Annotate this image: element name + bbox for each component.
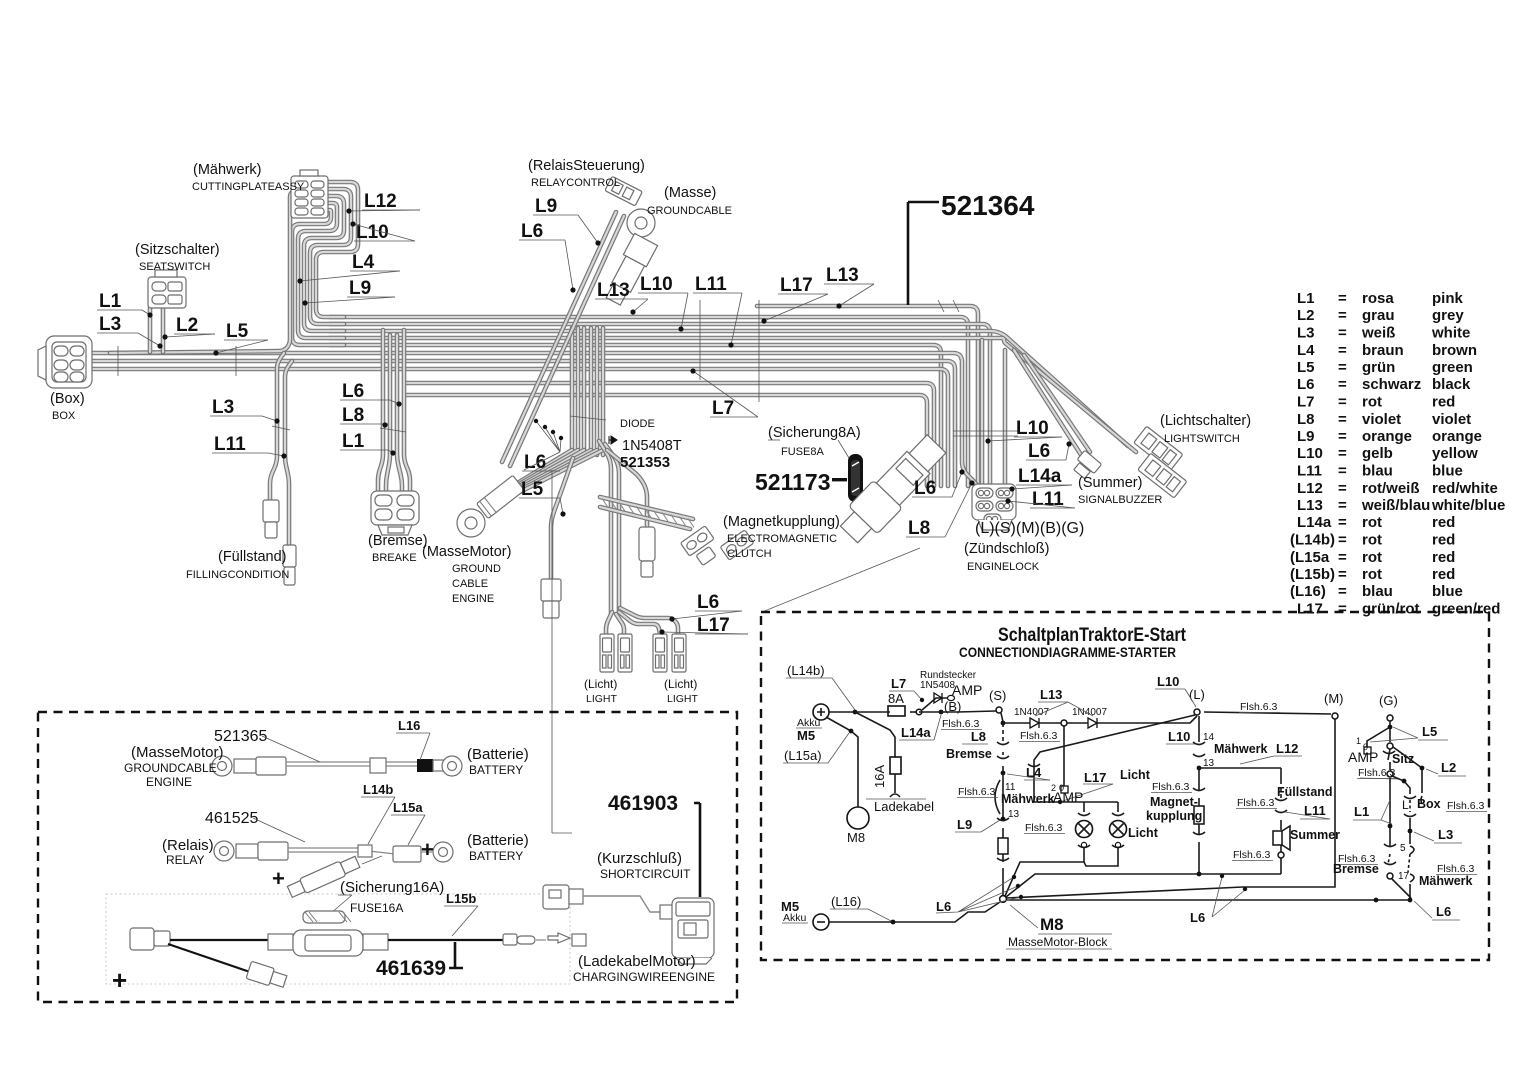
schematic diodes 1N4007 [1003,716,1197,723]
svg-text:L6: L6 [1297,376,1315,393]
svg-text:CABLE: CABLE [452,578,488,590]
svg-text:AMP: AMP [1053,789,1083,805]
svg-text:(G): (G) [1379,693,1398,708]
svg-text:L12: L12 [364,191,397,212]
svg-text:(Licht): (Licht) [584,677,617,691]
svg-text:schwarz: schwarz [1362,376,1421,393]
svg-text:+: + [112,965,127,995]
svg-text:L11: L11 [1032,489,1064,510]
svg-text:red: red [1432,532,1455,549]
svg-text:L17: L17 [1084,770,1106,785]
branch to small plug [168,944,250,972]
wire central bundle 3 [582,328,587,455]
svg-text:521353: 521353 [620,454,670,471]
svg-text:L6: L6 [914,478,936,499]
svg-text:red/white: red/white [1432,480,1498,497]
svg-text:L5: L5 [1422,724,1437,739]
svg-text:green: green [1432,359,1473,376]
schematic L2 wire [1393,747,1422,793]
svg-text:Ladekabel: Ladekabel [874,799,934,814]
schematic wire battery bus [829,711,890,713]
schematic fuse 16A branch [855,712,895,757]
wire trunk B3 -> lightswitch [330,331,1128,446]
wire lights feed 2 [605,444,619,614]
svg-text:L14b: L14b [363,782,393,797]
svg-text:(Zündschloß): (Zündschloß) [964,541,1049,557]
svg-text:L3: L3 [212,397,234,418]
svg-text:=: = [1338,532,1347,549]
connector filling condition [263,500,296,585]
svg-text:gelb: gelb [1362,445,1393,462]
svg-text:Flsh.6.3: Flsh.6.3 [1237,797,1275,809]
svg-text:=: = [1338,601,1347,618]
wire brake wire 4 [404,330,410,492]
svg-text:Flsh.6.3: Flsh.6.3 [1447,800,1485,812]
svg-text:LIGHT: LIGHT [667,693,699,705]
wire brake wire 2 [386,335,390,492]
diode symbol [609,436,617,444]
svg-text:brown: brown [1432,342,1477,359]
wire fillingcondition wire L3 [270,353,284,500]
connector light 1 [600,634,614,672]
svg-text:rot: rot [1362,549,1382,566]
svg-text:violet: violet [1432,411,1471,428]
wire trunk C3 [88,369,948,486]
break marks [117,346,119,376]
svg-text:M8: M8 [1040,915,1064,934]
connector light switch [1134,426,1183,471]
wire trunk B4 -> lightswitch [330,338,1136,452]
svg-text:white/blue: white/blue [1431,497,1505,514]
svg-text:L5: L5 [521,479,544,500]
connector cutting plate assy [291,170,328,218]
faint group outline [106,894,570,984]
svg-text:(MasseMotor): (MasseMotor) [422,544,511,560]
svg-text:L5: L5 [1297,359,1315,376]
svg-text:14: 14 [1203,732,1215,743]
wire central bundle 2 [576,328,581,455]
fuse 16A part [303,911,351,923]
svg-text:L12: L12 [1276,741,1298,756]
svg-text:Flsh.6.3: Flsh.6.3 [1152,781,1190,793]
svg-text:L14a: L14a [901,725,931,740]
svg-text:L1: L1 [99,291,122,312]
sleeve connector [639,527,655,577]
svg-text:(L14b): (L14b) [1290,532,1335,549]
connector brake [371,491,419,535]
svg-text:L6: L6 [524,452,546,473]
svg-text:L16: L16 [398,718,420,733]
svg-text:RELAYCONTROL: RELAYCONTROL [531,177,620,189]
schematic buzzer symbol [1273,831,1282,845]
svg-text:=: = [1338,394,1347,411]
svg-text:(Mähwerk): (Mähwerk) [193,162,261,178]
svg-text:AMP: AMP [1348,749,1378,765]
svg-text:(L15b): (L15b) [1290,566,1335,583]
svg-text:L2: L2 [1441,760,1456,775]
svg-text:ELECTROMAGNETIC: ELECTROMAGNETIC [727,533,837,545]
svg-text:(Sitzschalter): (Sitzschalter) [135,242,220,258]
svg-text:521173: 521173 [755,469,830,495]
svg-text:Licht: Licht [1120,768,1151,782]
svg-text:L4: L4 [352,252,375,273]
svg-text:461525: 461525 [205,810,258,827]
svg-text:L2: L2 [1297,307,1315,324]
svg-text:L8: L8 [971,729,986,744]
connector seat switch [148,270,186,308]
svg-text:BATTERY: BATTERY [469,763,523,777]
svg-text:AMP: AMP [952,682,982,698]
svg-text:BATTERY: BATTERY [469,849,523,863]
cable 521365 ground cable [212,756,462,776]
svg-text:=: = [1338,325,1347,342]
schematic wire to M8 [826,717,858,807]
svg-text:(Sicherung16A): (Sicherung16A) [340,879,444,896]
connector relay control [605,176,643,206]
svg-text:L10: L10 [640,274,673,295]
svg-text:(LadekabelMotor): (LadekabelMotor) [578,953,696,970]
wire maehwerk loop3 [304,196,344,331]
svg-text:Magnet-: Magnet- [1150,795,1198,809]
wire ignition bundle b [1003,350,1008,486]
svg-text:CHARGINGWIREENGINE: CHARGINGWIREENGINE [573,970,715,984]
svg-text:FILLINGCONDITION: FILLINGCONDITION [186,569,289,581]
svg-text:L6: L6 [1190,910,1205,925]
svg-text:(Batterie): (Batterie) [467,832,529,849]
wire maehwerk left tube [110,191,303,353]
svg-text:L3: L3 [1297,325,1315,342]
svg-text:blau: blau [1362,463,1393,480]
svg-text:L9: L9 [1297,428,1315,445]
svg-text:1N4007: 1N4007 [1072,707,1107,718]
svg-text:L9: L9 [957,817,972,832]
svg-text:=: = [1338,359,1347,376]
svg-text:rot: rot [1362,514,1382,531]
wire ground fan 6 [516,450,603,494]
svg-text:Mähwerk: Mähwerk [1419,874,1473,888]
svg-text:weiß: weiß [1361,325,1395,342]
svg-text:BOX: BOX [52,410,76,422]
svg-text:L13: L13 [597,280,630,301]
svg-text:braun: braun [1362,342,1404,359]
svg-text:GROUNDCABLE: GROUNDCABLE [124,761,217,775]
svg-text:(L14b): (L14b) [787,663,825,678]
svg-text:L1: L1 [1354,804,1369,819]
wire central bundle 1 [570,328,575,455]
wire seatswitch wire L2 [161,308,166,352]
wire maehwerk loop4 [298,203,344,338]
svg-text:rot: rot [1362,532,1382,549]
svg-text:violet: violet [1362,411,1401,428]
wire ground fan 4 [516,450,591,490]
svg-text:SIGNALBUZZER: SIGNALBUZZER [1078,494,1162,506]
svg-text:red: red [1432,514,1455,531]
svg-text:461639: 461639 [376,957,446,980]
svg-text:L9: L9 [349,278,371,299]
svg-text:Mähwerk: Mähwerk [1001,792,1055,806]
svg-text:L17: L17 [1297,601,1323,618]
svg-text:1N5408: 1N5408 [920,680,955,691]
svg-text:Mähwerk: Mähwerk [1214,742,1268,756]
wire central bundle 5 [595,328,600,455]
svg-text:L11: L11 [1297,463,1322,480]
svg-text:Summer: Summer [1290,828,1340,842]
wire seatswitch wire L1 [148,308,153,352]
svg-text:=: = [1338,463,1347,480]
svg-text:L6: L6 [1436,904,1451,919]
cable 461525 relay cable [214,841,453,862]
svg-text:L9: L9 [535,196,557,217]
wire maehwerk loop5 [292,210,344,345]
svg-text:8A: 8A [888,691,904,706]
svg-text:L6: L6 [521,221,543,242]
schematic Box bracket [1404,796,1422,804]
svg-text:blau: blau [1362,583,1393,600]
svg-text:(Box): (Box) [50,391,85,407]
svg-text:grey: grey [1432,307,1464,324]
svg-text:(L16): (L16) [831,894,861,909]
svg-text:+: + [421,837,434,862]
svg-text:yellow: yellow [1432,445,1478,462]
wire central bundle 4 [589,328,594,455]
svg-text:(M): (M) [1324,691,1344,706]
svg-text:(L15a): (L15a) [784,748,822,763]
ignition switch barrel [835,430,951,548]
svg-text:L1: L1 [1297,290,1315,307]
ground cable engine lug [477,475,525,518]
svg-text:L13: L13 [826,265,859,286]
svg-text:Flsh.6.3: Flsh.6.3 [1233,849,1271,861]
fuse 8A 521173 [848,454,863,502]
svg-text:=: = [1338,566,1347,583]
svg-text:L10: L10 [1157,674,1179,689]
svg-text:L5: L5 [226,321,249,342]
svg-text:=: = [1338,411,1347,428]
svg-text:=: = [1338,583,1347,600]
svg-text:L6: L6 [936,899,951,914]
schematic wire L10 to lights [1034,715,1195,802]
svg-text:CONNECTIONDIAGRAMME-STARTER: CONNECTIONDIAGRAMME-STARTER [959,645,1176,660]
svg-text:black: black [1432,376,1471,393]
svg-text:L1: L1 [342,431,365,452]
svg-text:Flsh.6.3: Flsh.6.3 [958,786,996,798]
svg-text:=: = [1338,480,1347,497]
svg-text:M8: M8 [847,830,865,845]
svg-text:L3: L3 [1438,827,1453,842]
svg-text:Bremse: Bremse [946,747,992,761]
svg-text:FUSE8A: FUSE8A [781,446,824,458]
wire light branch 2 [616,614,624,634]
svg-text:(Relais): (Relais) [162,837,214,854]
svg-text:(Bremse): (Bremse) [368,533,428,549]
svg-text:Bremse: Bremse [1333,862,1379,876]
wire relaycontrol wire L9 [502,212,616,462]
svg-text:L14a: L14a [1297,514,1332,531]
svg-text:blue: blue [1432,463,1463,480]
schematic G cluster [1389,721,1391,742]
svg-text:(Batterie): (Batterie) [467,746,529,763]
svg-text:L12: L12 [1297,480,1323,497]
svg-text:pink: pink [1432,290,1463,307]
svg-text:Flsh.6.3: Flsh.6.3 [1025,822,1063,834]
svg-text:461903: 461903 [608,792,678,815]
svg-text:=: = [1338,514,1347,531]
wire brake wire 1 [378,330,383,492]
svg-text:SEATSWITCH: SEATSWITCH [139,261,210,273]
svg-text:L8: L8 [1297,411,1315,428]
svg-text:L7: L7 [891,676,906,691]
svg-text:Akku: Akku [783,912,807,924]
svg-text:5: 5 [1400,843,1406,854]
svg-text:(S): (S) [989,688,1006,703]
schematic fuse 8A [888,706,905,716]
wire trunk D2 [405,395,927,486]
svg-text:DIODE: DIODE [620,418,655,430]
svg-text:=: = [1338,307,1347,324]
wire wire to buzzer L6 [1014,350,1083,458]
svg-text:(MasseMotor): (MasseMotor) [131,744,224,761]
svg-text:Flsh.6.3: Flsh.6.3 [1358,767,1396,779]
svg-text:L10: L10 [1016,418,1049,439]
wire light branch 4 [620,608,678,634]
svg-text:L8: L8 [908,518,930,539]
svg-text:BREAKE: BREAKE [372,552,417,564]
svg-text:(RelaisSteuerung): (RelaisSteuerung) [528,158,645,174]
svg-text:ENGINE: ENGINE [146,775,192,789]
svg-text:white: white [1431,325,1470,342]
wire trunk A1 L17/L13 [757,306,978,486]
svg-text:grau: grau [1362,307,1395,324]
schematic wire lamps to ground node [1005,858,1118,896]
svg-text:rosa: rosa [1362,290,1394,307]
svg-text:MasseMotor-Block: MasseMotor-Block [1008,935,1108,949]
fuse link 16A [287,854,361,899]
wire trunk B2 L10 [330,324,990,486]
svg-text:=: = [1338,549,1347,566]
svg-text:=: = [1338,445,1347,462]
svg-text:Licht: Licht [1128,826,1159,840]
svg-text:L17: L17 [780,275,813,296]
schematic diode 1N5408 round plug [922,698,947,710]
svg-text:GROUND: GROUND [452,563,501,575]
leader to schematic [762,548,920,612]
svg-text:(L16): (L16) [1290,583,1326,600]
svg-text:(Licht): (Licht) [664,677,697,691]
svg-text:(Summer): (Summer) [1078,475,1142,491]
svg-text:=: = [1338,428,1347,445]
svg-text:L3: L3 [99,314,121,335]
svg-text:L: L [1402,798,1409,812]
schematic ground node M8 block [1000,896,1007,903]
schematic battery M5 minus [813,914,829,930]
svg-text:weiß/blau: weiß/blau [1361,497,1430,514]
ground cable lug (Masse) [627,209,655,237]
svg-text:red: red [1432,394,1455,411]
schematic wire L to M [1204,712,1331,714]
parts box border [38,712,737,1002]
wire sleeve drop [607,450,647,527]
svg-text:Flsh.6.3: Flsh.6.3 [1437,863,1475,875]
wire ground fan 3 [516,450,584,488]
svg-text:(Lichtschalter): (Lichtschalter) [1160,413,1251,429]
svg-text:blue: blue [1432,583,1463,600]
connector box [38,336,92,388]
svg-text:(L15a: (L15a [1290,549,1330,566]
svg-text:(Sicherung8A): (Sicherung8A) [768,425,861,441]
wire light branch 1 [606,612,612,634]
svg-text:Flsh.6.3: Flsh.6.3 [1020,730,1058,742]
svg-text:RELAY: RELAY [166,853,204,867]
svg-text:L11: L11 [214,434,246,455]
svg-text:(Masse): (Masse) [664,185,716,201]
svg-text:(Kurzschluß): (Kurzschluß) [597,850,682,867]
schematic magnet clutch branch [1198,716,1200,742]
svg-text:grün: grün [1362,359,1395,376]
svg-text:ENGINE: ENGINE [452,593,494,605]
svg-text:Füllstand: Füllstand [1277,785,1333,799]
svg-text:CLUTCH: CLUTCH [727,548,772,560]
svg-text:L15a: L15a [393,800,423,815]
svg-text:M5: M5 [797,728,815,743]
schematic switch chain S-column [1002,723,1004,741]
connector electromagnetic clutch [680,526,714,556]
svg-text:L15b: L15b [446,891,476,906]
wire trunk B5 [330,345,941,486]
svg-text:L6: L6 [697,592,719,613]
svg-text:1: 1 [1356,736,1361,746]
wire fillingcondition wire L11 [285,361,292,545]
svg-text:orange: orange [1432,428,1482,445]
wire trunk C1 [88,353,988,500]
svg-text:L10: L10 [1168,729,1190,744]
wire ground fan 1 [516,450,572,484]
svg-text:CUTTINGPLATEASSY: CUTTINGPLATEASSY [192,181,305,193]
svg-text:1N5408T: 1N5408T [622,438,682,454]
svg-text:LIGHTSWITCH: LIGHTSWITCH [1164,433,1240,445]
svg-text:521364: 521364 [941,190,1035,221]
svg-text:rot: rot [1362,566,1382,583]
wire wire to buzzer L11 [1024,355,1090,452]
schematic lamps [1034,802,1118,812]
svg-text:GROUNDCABLE: GROUNDCABLE [647,205,732,217]
svg-text:L6: L6 [1028,441,1050,462]
svg-text:=: = [1338,376,1347,393]
svg-text:L7: L7 [1297,394,1315,411]
svg-text:L13: L13 [1040,687,1062,702]
svg-text:L8: L8 [342,405,364,426]
wire light branch 3 [619,612,660,634]
wire central bundle 6 [601,328,606,455]
svg-text:L11: L11 [695,274,727,295]
svg-text:red: red [1432,566,1455,583]
svg-text:L7: L7 [712,398,734,419]
connector signal buzzer [1071,450,1102,481]
schematic battery M5 plus [813,704,829,720]
svg-text:orange: orange [1362,428,1412,445]
svg-text:SHORTCIRCUIT: SHORTCIRCUIT [600,867,691,881]
svg-text:Box: Box [1417,797,1441,811]
wire ground fan 5 [516,450,597,492]
svg-text:FUSE16A: FUSE16A [350,901,403,915]
svg-text:grün/rot: grün/rot [1362,601,1420,618]
svg-text:L2: L2 [176,315,198,336]
wire ignition bundle a [980,340,985,486]
connector engine lock [972,484,1016,530]
svg-text:=: = [1338,497,1347,514]
svg-text:LIGHT: LIGHT [586,693,618,705]
svg-text:L6: L6 [342,381,364,402]
svg-text:red: red [1432,549,1455,566]
